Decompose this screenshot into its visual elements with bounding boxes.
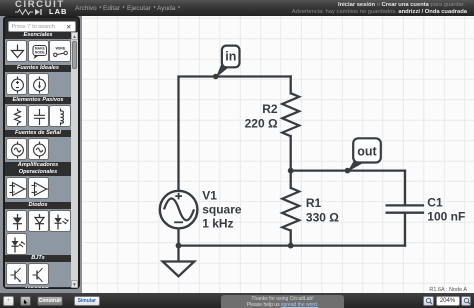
svg-text:WIRE: WIRE [56, 47, 66, 51]
svg-text:R1: R1 [306, 196, 322, 210]
toolbox diode icon [6, 210, 27, 232]
svg-text:330 Ω: 330 Ω [306, 211, 339, 225]
wire: bottom rail (ground net) [179, 244, 406, 246]
wire: out rail corner down to C1 pin 1 [404, 171, 406, 206]
left pane background [0, 16, 82, 293]
svg-text:R2: R2 [262, 102, 278, 116]
wire: out rail (net out) [291, 169, 405, 171]
toolbox wire icon [49, 40, 70, 62]
junction dot: node in tap [213, 74, 219, 80]
wire: C1 pin 2 down to bottom rail [404, 213, 406, 246]
junction dot: out tap [345, 168, 351, 174]
wire: R2 pin 2 to out junction [290, 136, 292, 171]
label V1 value [202, 188, 242, 230]
toolbox current source icon [28, 73, 49, 95]
ground symbol [163, 262, 195, 277]
resistor R2 [282, 93, 299, 136]
svg-text:square: square [202, 203, 242, 217]
wire: out junction to R1 pin 1 [290, 171, 292, 188]
label C1 value [427, 196, 465, 224]
top bar [0, 0, 474, 16]
voltage source V1 (square wave) [160, 191, 198, 229]
junction dot: R2/R1/out rail [288, 168, 294, 174]
toolbox resistor icon [6, 105, 27, 127]
svg-text:C1: C1 [427, 196, 443, 210]
toolbox inductor icon [49, 105, 70, 127]
toolbox schottky diode icon [28, 210, 49, 232]
wire: R1 pin 2 to bottom rail [290, 230, 292, 245]
wire: V1 bottom to ground [177, 229, 179, 262]
bottom bar [0, 293, 474, 308]
node label "out" [348, 138, 381, 171]
toolbox signal voltage source icon [6, 138, 27, 160]
junction dot: R1 bottom / bottom rail [288, 243, 294, 249]
svg-text:100 nF: 100 nF [427, 210, 465, 224]
toolbox ground icon [6, 40, 27, 62]
toolbox op-amp icon 1 [6, 177, 27, 199]
toolbox signal current source icon [28, 138, 49, 160]
wire: top rail (net in) [179, 75, 291, 77]
toolbox op-amp icon 2 [28, 177, 49, 199]
toolbox voltage source icon [6, 73, 27, 95]
toolbox NPN transistor icon [6, 263, 27, 285]
svg-text:NODE: NODE [34, 51, 45, 55]
toolbox LED icon [49, 210, 70, 232]
wire: V1 top to top-left corner [177, 78, 179, 191]
toolbox panel [3, 16, 80, 289]
svg-text:1 kHz: 1 kHz [202, 217, 233, 231]
node label "in" [216, 46, 240, 78]
label R2 value [245, 102, 278, 131]
status text [429, 287, 467, 293]
junction dot: V1 / ground / bottom rail [176, 243, 182, 249]
capacitor C1 plates [386, 205, 425, 212]
label R1 value [306, 196, 339, 225]
svg-text:in: in [225, 50, 236, 64]
svg-text:220 Ω: 220 Ω [245, 116, 278, 130]
resistor R1 [282, 188, 299, 231]
toolbox photodiode icon [6, 233, 27, 255]
toolbox PNP transistor icon [28, 263, 49, 285]
toolbox make-node icon [28, 40, 49, 62]
toolbox capacitor icon [28, 105, 49, 127]
wire: top rail down to R2 pin 1 [290, 77, 292, 94]
svg-text:V1: V1 [202, 188, 217, 202]
svg-text:out: out [357, 145, 377, 159]
